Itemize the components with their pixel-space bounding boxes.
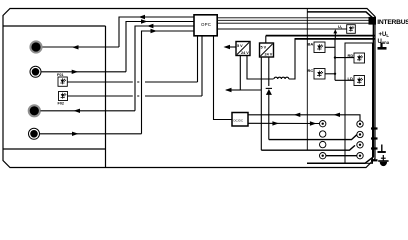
coil feed wire from T1 [247,56,274,80]
terminal tab 2 [371,137,378,139]
wire T2 top to +UL rail [265,36,267,43]
wire W2 supply out [248,122,319,124]
terminal 2 (thin ring) [30,66,41,77]
OPC pin3 wire to DC/DC isolator [214,36,233,120]
Uana rail [295,38,376,40]
LED common vertical [334,38,336,80]
left block top line [3,25,106,27]
svg-text:UL: UL [338,24,343,30]
LED RD box [354,53,365,63]
section divider line [306,9,308,151]
diode V1 [266,88,272,95]
converter T2 5V/24V [260,43,274,57]
terminal circle right row1 [357,121,363,127]
wire LD to common [335,79,354,81]
terminal 1 (gray ring) [31,42,42,53]
terminal circle left row2 [320,131,326,137]
terminal tab 1 [371,127,378,129]
OPC pin2 drop [201,36,203,96]
UL feed arrow up from rail [333,29,337,39]
wire v4 riser [142,31,195,134]
arrow left on W1 (second) [334,113,341,117]
LED F02 box [59,92,68,101]
LED RC box [314,69,325,80]
svg-text:INTERBUS: INTERBUS [377,19,408,26]
terminal circle right row2 [357,131,363,137]
svg-text:5 V: 5 V [261,46,267,50]
module outer outline [3,9,375,168]
diode to La corner [268,93,270,140]
svg-text:5 V: 5 V [237,44,243,48]
left block bottom line [3,148,106,150]
wire v1 riser [119,17,194,47]
right terminal block box [345,43,373,163]
svg-text:+UL: +UL [379,32,390,38]
wire W1 24V in [248,115,360,121]
Uana reference bar symbol [378,43,387,49]
svg-text:24 V: 24 V [241,51,249,55]
arrow right on terminal4 wire [72,132,79,136]
arrow right on w2 [141,19,148,23]
OPC chip U1 [194,15,217,36]
wire Lb to terminal 3 right [261,145,355,150]
INTERBUS line 1 [218,17,369,19]
LED UL box [347,25,356,34]
svg-text:BA: BA [308,42,314,47]
arrow left on w1 [139,15,146,19]
svg-text:24 V: 24 V [265,53,273,57]
wire RC to common [325,73,335,75]
wire v3 riser [135,26,194,111]
earth symbol [378,155,388,166]
T2 left pin drop [260,57,262,150]
terminal circle left row3 [320,141,326,147]
LED F01 box [58,77,67,86]
LED LD box [354,76,365,86]
wire terminal1 to node v1 [43,46,120,48]
junction dot RD [334,56,336,58]
UL logic supply line [218,28,347,30]
svg-text:OPC: OPC [201,22,211,27]
arrow left on terminal1 wire [72,45,79,49]
wire F02 to OPC pin2 [68,95,203,97]
left block right edge [105,26,107,167]
arrow left on w3 [147,24,154,28]
terminal 3 (gray ring) [29,106,40,117]
wire row4 link [326,155,357,157]
wire F01 to OPC pin1 [67,81,197,83]
wire v2 riser [126,22,194,72]
wire BA to common [325,46,335,48]
5V wire with left arrow [224,45,237,49]
arrow left on terminal3 wire [74,109,81,113]
arrow right on w4 [151,29,158,33]
analog ground bar symbol [378,145,386,153]
arrow right on terminal2 wire [72,70,79,74]
wire coil to Uana rail [289,39,295,79]
INTERBUS line 2 [218,19,369,21]
wire RD to common [335,57,354,59]
svg-text:DC/DC: DC/DC [234,119,244,123]
converter T1 5V/24V [236,42,250,56]
terminal tab 4 [371,159,378,161]
terminal circle right row4 [357,153,363,159]
terminal circle left row4 [320,153,326,159]
terminal tab 3 [371,147,378,149]
arrow left on W1 (first) [294,113,301,117]
arrow right on W2 (second) [310,121,317,125]
inductor L1 [274,77,289,79]
INTERBUS bus block [369,17,377,25]
T2 right pin drop [268,57,270,86]
wire terminal4 to node v4 [40,133,142,135]
svg-text:RC: RC [308,68,314,73]
terminal circle left row1 [320,121,326,127]
svg-text:F02: F02 [58,102,65,106]
LED BA box [314,42,325,53]
junction dot RC [334,73,336,75]
svg-text:F01: F01 [57,73,64,77]
INTERBUS line 3 [218,22,369,24]
24V wire y90 with left arrow [225,56,261,93]
svg-text:Uana: Uana [378,39,390,45]
module inner right outline [307,12,373,163]
OPC pin1 drop [197,36,199,82]
arrow right on W2 (first) [272,121,279,125]
wire terminal2 to node v2 [42,71,127,73]
terminal circle right row3 [357,142,363,148]
wire La to terminal 2 right [269,135,357,140]
terminal 4 (thin ring) [29,128,40,139]
DC/DC isolator box [232,113,248,127]
wire terminal3 to node v3 [41,110,136,112]
+UL rail [266,35,376,37]
